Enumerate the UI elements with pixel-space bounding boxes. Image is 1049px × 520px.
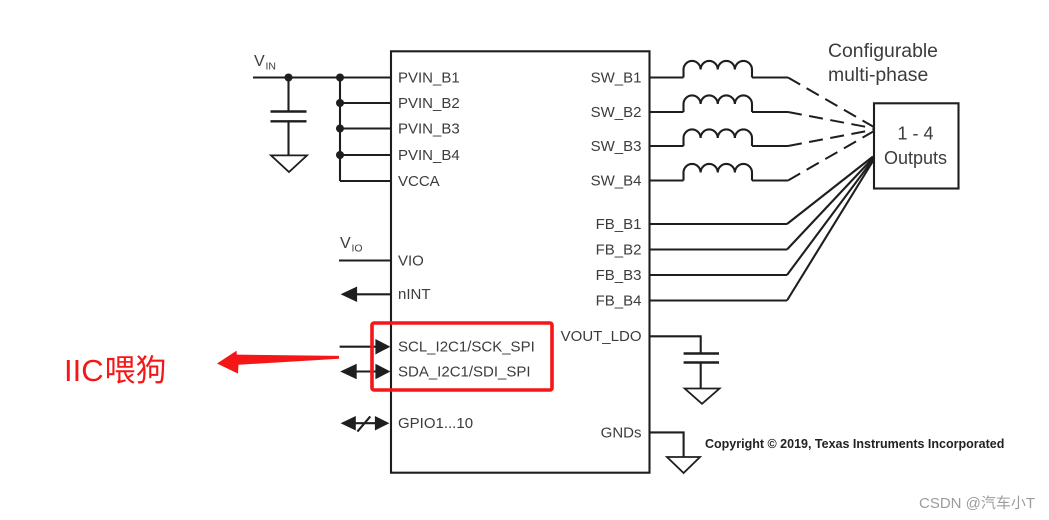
svg-text:FB_B3: FB_B3	[596, 267, 642, 284]
svg-text:Copyright © 2019, Texas Instru: Copyright © 2019, Texas Instruments Inco…	[705, 437, 1004, 451]
svg-text:nINT: nINT	[398, 286, 431, 303]
svg-text:V: V	[340, 235, 351, 252]
svg-text:FB_B1: FB_B1	[596, 216, 642, 233]
svg-text:FB_B2: FB_B2	[596, 241, 642, 258]
svg-text:V: V	[254, 53, 265, 70]
svg-text:SW_B2: SW_B2	[591, 104, 642, 121]
svg-text:PVIN_B2: PVIN_B2	[398, 95, 460, 112]
svg-text:SW_B4: SW_B4	[591, 172, 642, 189]
svg-text:VCCA: VCCA	[398, 173, 440, 190]
svg-text:IO: IO	[352, 243, 363, 255]
svg-text:Configurable: Configurable	[828, 40, 938, 62]
svg-text:SW_B1: SW_B1	[591, 69, 642, 86]
svg-text:CSDN @: CSDN @	[919, 495, 981, 512]
svg-text:1 - 4: 1 - 4	[897, 123, 933, 143]
svg-text:PVIN_B3: PVIN_B3	[398, 120, 460, 137]
svg-text:GPIO1...10: GPIO1...10	[398, 415, 473, 432]
svg-text:FB_B4: FB_B4	[596, 292, 642, 309]
svg-text:PVIN_B1: PVIN_B1	[398, 69, 460, 86]
svg-text:VIO: VIO	[398, 252, 424, 269]
svg-text:SW_B3: SW_B3	[591, 138, 642, 155]
svg-text:IN: IN	[266, 61, 277, 73]
svg-text:SCL_I2C1/SCK_SPI: SCL_I2C1/SCK_SPI	[398, 339, 535, 356]
svg-text:PVIN_B4: PVIN_B4	[398, 147, 460, 164]
svg-text:T: T	[1026, 495, 1035, 512]
svg-text:IIC: IIC	[64, 353, 104, 388]
svg-text:GNDs: GNDs	[601, 424, 642, 441]
svg-text:Outputs: Outputs	[884, 148, 947, 168]
svg-text:SDA_I2C1/SDI_SPI: SDA_I2C1/SDI_SPI	[398, 363, 531, 380]
svg-text:VOUT_LDO: VOUT_LDO	[561, 328, 642, 345]
svg-text:multi-phase: multi-phase	[828, 64, 928, 86]
